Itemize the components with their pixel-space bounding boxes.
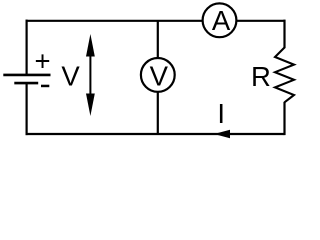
wire top — [26, 20, 285, 22]
wire right rail upper — [283, 20, 285, 49]
wire voltmeter branch — [157, 21, 159, 134]
voltage annotation arrow — [86, 34, 95, 116]
current arrow I head — [214, 130, 230, 138]
svg-text:V: V — [61, 61, 80, 92]
wire bottom — [26, 133, 285, 135]
battery B1 short plate — [14, 82, 38, 85]
voltmeter U1 circle — [141, 58, 175, 92]
battery B1 long plate — [3, 74, 50, 77]
svg-text:I: I — [217, 98, 225, 129]
wire left rail upper — [26, 20, 28, 75]
wire left rail lower — [26, 83, 28, 135]
ammeter U2 circle — [203, 3, 237, 37]
label - (battery negative) — [41, 85, 49, 88]
resistor R zigzag — [275, 48, 294, 103]
svg-text:A: A — [212, 5, 231, 36]
wire right rail lower — [283, 102, 285, 135]
svg-text:+: + — [34, 46, 50, 77]
svg-text:V: V — [150, 61, 169, 92]
svg-text:R: R — [251, 61, 271, 92]
